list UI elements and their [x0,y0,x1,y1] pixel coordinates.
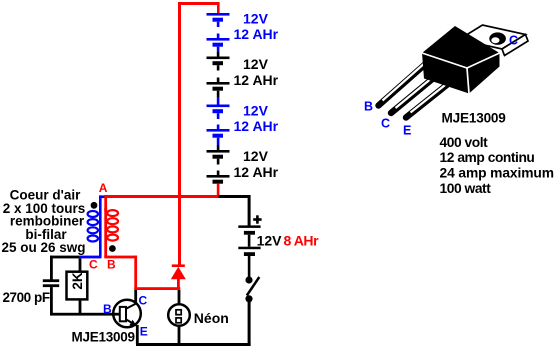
phasing dot blue coil [91,202,98,209]
svg-text:C: C [89,257,98,271]
wire switch to bottom rail [248,301,251,346]
neon lamp NE1 [168,304,190,326]
svg-text:100 watt: 100 watt [440,181,492,196]
wire base rail from capacitor to transistor base [50,313,120,316]
battery B2 cell 1 (black) [207,57,230,71]
svg-text:B: B [107,257,116,271]
TO-220 lead E [406,76,458,118]
wire neon bottom to rail [178,326,181,344]
wire junction B3- to B4+ [217,145,220,150]
wire red coil left side [104,208,107,257]
svg-text:C: C [139,294,148,308]
wire red node B to collector node [104,256,180,290]
wire red node A down to red coil [104,195,107,211]
svg-text:MJE13009: MJE13009 [72,329,135,344]
svg-text:24 amp maximum: 24 amp maximum [440,166,554,181]
svg-text:12 AHr: 12 AHr [234,118,279,134]
svg-text:MJE13009: MJE13009 [442,110,507,125]
svg-text:12V: 12V [257,233,283,249]
switch S1 top contact [245,276,252,283]
label + plus sign of 12V 8AHr battery [253,215,261,223]
svg-text:12 AHr: 12 AHr [234,26,279,42]
TO-220 package drawing: mounting tab [459,25,528,56]
svg-text:12V: 12V [243,10,269,26]
svg-text:12V: 12V [243,102,269,118]
TO-220 lead C [391,69,445,114]
svg-text:C: C [509,34,518,48]
battery B5 cell 2 [238,247,260,277]
coil L1 primary (blue) loops [88,211,98,242]
battery B5 12V 8AHr cell 1 [238,225,260,246]
svg-text:12V: 12V [243,56,269,72]
svg-text:C: C [381,116,390,130]
switch S1 blade [247,277,259,296]
svg-text:12 AHr: 12 AHr [234,164,279,180]
battery B2 cell 2 (black) [207,78,230,98]
wire emitter down to bottom rail [136,325,139,344]
wire capacitor bottom to base rail [50,287,53,315]
wire red top bus from battery stack + to diode [178,2,220,265]
svg-text:12 amp continu: 12 amp continu [440,150,535,165]
diode D1 (red) [171,264,186,288]
svg-text:400 volt: 400 volt [440,135,489,150]
svg-text:A: A [99,181,108,195]
phasing dot red coil [109,245,116,252]
svg-text:2700 pF: 2700 pF [3,290,50,305]
battery B4 cell 1 (black) [207,150,230,165]
battery B4 cell 2 (black) [207,171,230,184]
svg-text:12 AHr: 12 AHr [234,72,279,88]
battery B3 cell 2 (blue) [207,125,230,146]
switch S1 bottom contact [245,295,252,302]
TO-220 body top face edges (white) [422,53,500,94]
svg-text:E: E [140,324,148,338]
svg-text:2K: 2K [70,272,85,290]
battery B1 cell 1 (blue) [207,13,230,27]
svg-text:25 ou 26 swg: 25 ou 26 swg [1,240,85,255]
TO-220 mounting hole [489,32,506,44]
wire black node C to capacitor/resistor top [50,256,79,280]
wire junction B2- to B3+ [217,97,220,105]
svg-text:8 AHr: 8 AHr [284,233,320,249]
TO-220 body [422,26,500,94]
wire junction B1- to B2+ [217,52,220,57]
svg-text:Néon: Néon [194,310,229,326]
svg-text:12V: 12V [243,148,269,164]
TO-220 lead B [379,60,431,106]
wire red B4- down to main horizontal wire [217,184,220,197]
wire red main horizontal from node A to battery stack bottom [104,195,218,198]
wire blue coil bottom to node C [79,256,102,259]
wire bottom rail [136,343,251,346]
battery B1 cell 2 (blue) [207,34,230,53]
svg-text:B: B [103,302,112,316]
battery B3 cell 1 (blue) [207,105,230,120]
wire collector up to red junction [134,290,137,304]
wire black from battery stack bottom to charge battery + [219,195,251,226]
wire diode junction down to neon [178,290,181,305]
svg-text:E: E [403,124,411,138]
capacitor C1 2700pF [43,279,59,287]
svg-text:B: B [364,99,373,113]
svg-text:Coeur d'air: Coeur d'air [10,187,81,202]
coil L1 secondary (red) loops [107,210,118,241]
text block coil winding notes [1,187,85,255]
wire blue node A corner [99,195,105,256]
transistor Q1 MJE13009 [113,300,141,328]
resistor R1 2K [67,258,88,314]
